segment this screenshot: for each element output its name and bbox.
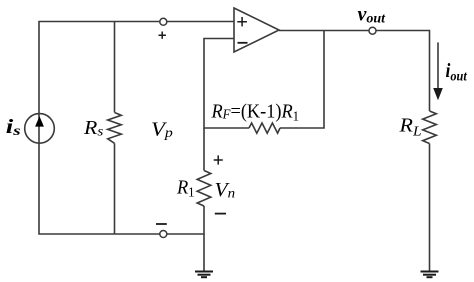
node Vp+ terminal [160, 18, 167, 25]
svg-text:R1: R1 [176, 177, 195, 200]
label vout [358, 4, 387, 27]
current source Is [25, 114, 55, 144]
plus sign Vn [214, 155, 223, 164]
svg-text:is: is [6, 116, 21, 138]
label R1 [176, 177, 195, 200]
resistor RL [423, 111, 437, 144]
node vout [369, 27, 376, 34]
minus sign Vn [215, 213, 226, 215]
minus sign Vp [156, 223, 167, 225]
svg-text:Vp: Vp [151, 118, 173, 141]
label RF = (K-1)R1 [211, 101, 300, 124]
resistor R1 [197, 171, 211, 207]
wire Rs bottom lead [114, 143, 116, 234]
wire source loop: bottom rail, left branch, top rail [39, 22, 234, 235]
label Rs [83, 116, 104, 139]
ground below R1 [195, 272, 213, 278]
label Vn [215, 179, 236, 201]
op-amp U1 [234, 8, 279, 52]
label RL [398, 113, 421, 139]
wire R1 bottom lead [203, 206, 205, 272]
arrow iout [433, 42, 443, 100]
svg-text:iout: iout [446, 60, 468, 84]
resistor Rs [108, 113, 122, 144]
wire RL bottom lead [429, 144, 431, 272]
ground below RL [421, 272, 439, 278]
svg-text:Vn: Vn [215, 179, 236, 201]
label is [6, 116, 21, 138]
label Vp [151, 118, 173, 141]
wire op-amp output and load branch [279, 31, 430, 112]
resistor RF [249, 123, 280, 133]
wire Rs top lead [114, 22, 116, 113]
svg-text:vout: vout [358, 4, 387, 27]
node Vp- terminal [160, 231, 167, 238]
wire RF row right and feedback right vertical [280, 31, 324, 129]
svg-text:RF=(K-1)R1: RF=(K-1)R1 [211, 101, 300, 124]
wire R1 top lead [203, 128, 205, 171]
label iout [446, 60, 468, 84]
svg-text:Rs: Rs [83, 116, 104, 139]
plus sign Vp [159, 32, 166, 39]
svg-text:RL: RL [398, 113, 421, 139]
wire inverting input and feedback left vertical [204, 39, 249, 129]
